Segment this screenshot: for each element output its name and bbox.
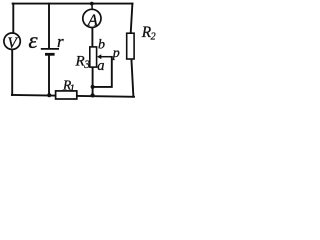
svg-text:V: V: [7, 35, 18, 52]
svg-text:A: A: [87, 11, 99, 30]
svg-text:p: p: [112, 46, 120, 61]
svg-text:R: R: [75, 54, 85, 70]
svg-text:b: b: [98, 38, 105, 53]
svg-text:3: 3: [83, 59, 90, 71]
svg-text:2: 2: [151, 31, 156, 42]
svg-text:1: 1: [70, 84, 75, 95]
svg-text:ε: ε: [28, 28, 38, 54]
svg-text:a: a: [97, 58, 104, 74]
svg-text:r: r: [57, 32, 64, 51]
